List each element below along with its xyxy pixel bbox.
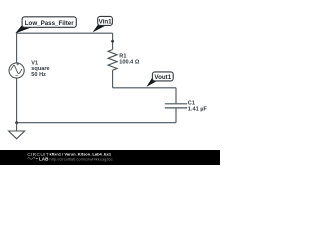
- ground: [9, 123, 25, 139]
- wire bottom horizontal: [17, 122, 176, 124]
- svg-text:Vin1: Vin1: [99, 19, 113, 26]
- resistor R1: [108, 50, 117, 71]
- wire left upper: [16, 33, 18, 63]
- net flag Vin1: [93, 16, 113, 32]
- CircuitLab logo: [27, 152, 49, 161]
- svg-text:LAB: LAB: [39, 156, 49, 161]
- svg-text:Low_Pass_Filter: Low_Pass_Filter: [25, 20, 74, 27]
- wire R1 top lead: [112, 33, 114, 49]
- wire R1 bottom lead: [112, 70, 114, 88]
- label V1 values: [31, 60, 49, 78]
- node junction bottom-left: [15, 121, 18, 124]
- footer bar: [0, 150, 220, 165]
- wire top horizontal: [17, 32, 113, 34]
- net flag Vout1: [146, 72, 173, 87]
- svg-text:http://circuitlab.com/c/rwt4kk: http://circuitlab.com/c/rwt4kkcag26c: [50, 156, 113, 161]
- node Vin1 attach dot: [111, 40, 114, 43]
- wire right lower: [175, 108, 177, 123]
- label R1 values: [119, 54, 140, 66]
- wire mid horizontal: [113, 87, 176, 89]
- capacitor C1: [165, 104, 187, 108]
- voltage source V1: [9, 63, 24, 78]
- svg-text:100.4 Ω: 100.4 Ω: [119, 60, 140, 66]
- wire left lower: [16, 78, 18, 123]
- svg-text:Vout1: Vout1: [154, 74, 171, 81]
- wire right upper: [175, 88, 177, 104]
- net flag Low_Pass_Filter: [15, 17, 76, 34]
- label C1 values: [188, 101, 208, 113]
- svg-text:1.41 µF: 1.41 µF: [188, 106, 208, 112]
- svg-text:50 Hz: 50 Hz: [31, 72, 46, 78]
